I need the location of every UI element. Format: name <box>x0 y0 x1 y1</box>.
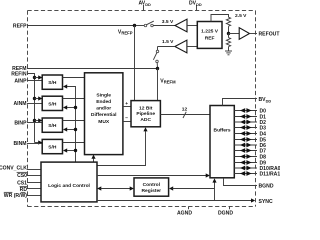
svg-text:ADC: ADC <box>140 117 151 123</box>
wire MUX plus output <box>123 106 131 108</box>
wire tap1 arrow into S/H1 <box>35 75 43 79</box>
svg-text:1.5 V: 1.5 V <box>162 39 174 45</box>
wire ADC clock from logic <box>97 127 148 165</box>
wire BINP <box>27 122 42 124</box>
svg-text:AVDD: AVDD <box>139 1 152 7</box>
node REFIN tap 1 <box>33 76 36 79</box>
pin AGND tick <box>188 207 190 210</box>
svg-text:DGND: DGND <box>218 210 233 216</box>
svg-text:S/H: S/H <box>48 145 57 151</box>
svg-text:DVDD: DVDD <box>189 1 202 7</box>
wire D1 <box>234 114 257 119</box>
svg-text:12 Bit: 12 Bit <box>139 105 153 111</box>
wire tap4 arrow into S/H4 <box>35 140 43 144</box>
wire REFOUT <box>250 33 258 35</box>
svg-text:MUX: MUX <box>98 119 110 125</box>
svg-text:AINP: AINP <box>14 78 27 84</box>
wire D3 <box>234 125 257 130</box>
wire S/H3 clock return <box>63 127 77 131</box>
pin label RD (active low) <box>20 187 28 194</box>
wire REFIN <box>27 74 35 143</box>
wire REFM <box>27 68 158 70</box>
svg-text:12: 12 <box>182 107 188 113</box>
resistor R2 <box>226 38 230 47</box>
wire MUX minus output <box>123 121 131 123</box>
MUX U2 Single Ended and/or Differential MUX <box>85 73 123 155</box>
pin AVDD tick <box>143 5 145 11</box>
svg-text:S/H: S/H <box>48 80 57 86</box>
wire BVDD <box>223 99 258 106</box>
node REFIN tap 2 <box>33 97 36 100</box>
svg-text:Logic and Control: Logic and Control <box>48 183 90 189</box>
wire RD <box>27 188 41 190</box>
svg-text:AINM: AINM <box>13 101 26 107</box>
svg-text:Register: Register <box>142 188 162 194</box>
ADC U3 12 Bit Pipeline ADC <box>131 101 160 127</box>
svg-text:BINM: BINM <box>13 141 26 147</box>
wire MUX clock from logic <box>91 155 95 163</box>
wire node to R2 <box>228 34 230 38</box>
wire REFP <box>27 25 135 27</box>
wire D9 <box>234 160 257 165</box>
data lines D0-D11 <box>234 108 257 176</box>
junction node REFM/VREFM <box>156 67 159 70</box>
svg-text:S/H: S/H <box>48 123 57 129</box>
wire VREFP vertical <box>134 26 136 102</box>
wire ADC data bus to Buffers <box>160 114 210 116</box>
svg-text:Pipeline: Pipeline <box>136 111 155 117</box>
svg-text:BGND: BGND <box>259 183 274 189</box>
svg-text:CS1: CS1 <box>17 181 27 187</box>
wire R2 to ground <box>228 47 230 51</box>
svg-text:BINP: BINP <box>14 120 27 126</box>
wire D11/RA1 <box>234 171 257 176</box>
svg-text:CONV_CLK: CONV_CLK <box>0 166 27 172</box>
pin DVDD tick <box>196 5 198 11</box>
node REFIN tap 3 <box>33 119 36 122</box>
wire S/H1 clock return <box>63 84 76 162</box>
wire S/H2 clock return <box>63 105 77 109</box>
svg-text:REFOUT: REFOUT <box>259 31 281 37</box>
svg-text:Control: Control <box>143 182 161 188</box>
svg-text:Ended: Ended <box>96 99 111 105</box>
wire WR <box>27 195 41 197</box>
svg-text:Differential: Differential <box>91 112 117 118</box>
svg-text:S/H: S/H <box>48 101 57 107</box>
chip dashed border <box>28 11 256 207</box>
pin label WR (R/W) <box>4 192 27 199</box>
wire BGND <box>224 178 258 186</box>
pin label CS0 (active low) <box>17 172 28 179</box>
svg-text:BVDD: BVDD <box>259 97 272 103</box>
wire Logic to Control Register bidirectional <box>97 186 134 190</box>
wire S/H4 clock return <box>63 148 77 152</box>
svg-text:2.5 V: 2.5 V <box>235 13 247 19</box>
wire D0 <box>234 108 257 113</box>
svg-text:CS0: CS0 <box>17 173 27 179</box>
wire D7 <box>234 148 257 153</box>
wire S/H1 output <box>63 77 85 79</box>
svg-text:D11/RA1: D11/RA1 <box>260 171 281 177</box>
pin DGND tick <box>229 207 231 210</box>
Logic and Control U4 <box>41 162 97 202</box>
S/H 1 <box>42 75 62 89</box>
wire D8 <box>234 154 257 159</box>
svg-text:Buffers: Buffers <box>214 128 231 134</box>
svg-text:AGND: AGND <box>177 210 192 216</box>
Control Register U5 <box>134 178 169 196</box>
wire REF top to resistor chain <box>211 15 229 22</box>
wire Logic to Buffers enable <box>97 173 210 177</box>
wire buffer1 to REF <box>187 25 197 27</box>
voltage reference U1 1.225V REF <box>197 22 222 49</box>
wire D6 <box>234 143 257 148</box>
wire buffer2 to REF <box>187 46 197 48</box>
svg-text:REFIN: REFIN <box>11 71 27 77</box>
wire CS1 <box>27 182 41 184</box>
svg-text:VREFP: VREFP <box>118 30 133 36</box>
S/H 3 <box>42 118 62 132</box>
resistor R1 <box>226 17 230 26</box>
bus slash <box>183 112 186 118</box>
wire CONV_CLK <box>27 169 41 171</box>
wire D2 <box>234 120 257 125</box>
wire tap3 arrow into S/H3 <box>35 118 43 122</box>
svg-text:SYNC: SYNC <box>259 199 273 205</box>
wire tap2 arrow into S/H2 <box>35 96 43 100</box>
junction node REFOUT <box>227 32 230 35</box>
svg-text:1.225 V: 1.225 V <box>201 28 219 34</box>
wire S/H4 output <box>63 142 85 144</box>
wire R1 to node <box>228 26 230 33</box>
S/H 4 <box>42 139 62 153</box>
wire BINM <box>27 143 42 145</box>
op-amp buffer 3.5V <box>175 19 187 32</box>
op-amp buffer 2.5V <box>239 28 249 40</box>
wire node to buffer3 <box>229 33 240 35</box>
switch S1 (REFP select) <box>136 21 175 27</box>
S/H 2 <box>42 96 62 110</box>
wire D4 <box>234 131 257 136</box>
wire S/H2 output <box>63 98 85 100</box>
svg-text:−: − <box>125 117 128 122</box>
op-amp buffer 1.5V <box>175 40 187 53</box>
svg-text:and/or: and/or <box>96 106 111 112</box>
svg-text:Single: Single <box>96 92 111 98</box>
wire VREFM vertical <box>157 69 159 102</box>
svg-text:+: + <box>125 102 128 107</box>
wire CS0 <box>27 175 41 177</box>
wire sync net vertical to Buffers <box>212 178 216 200</box>
svg-text:3.5 V: 3.5 V <box>162 19 174 25</box>
wire S/H3 output <box>63 120 85 122</box>
switch S2 (REFM select) <box>153 47 175 69</box>
ground <box>225 51 232 55</box>
wire AINM <box>27 103 42 105</box>
svg-text:REFP: REFP <box>13 23 27 29</box>
Buffers U6 <box>210 106 234 178</box>
wire D10/RA0 <box>234 166 257 171</box>
svg-text:VREFM: VREFM <box>160 79 176 85</box>
svg-text:WR (R/W): WR (R/W) <box>4 193 27 199</box>
wire SYNC <box>97 198 255 202</box>
wire D5 <box>234 137 257 142</box>
svg-text:REF: REF <box>205 35 215 41</box>
wire AINP <box>27 80 42 82</box>
wire Control Register feed from sync net <box>169 186 215 190</box>
junction node REFP/VREFP <box>133 24 136 27</box>
